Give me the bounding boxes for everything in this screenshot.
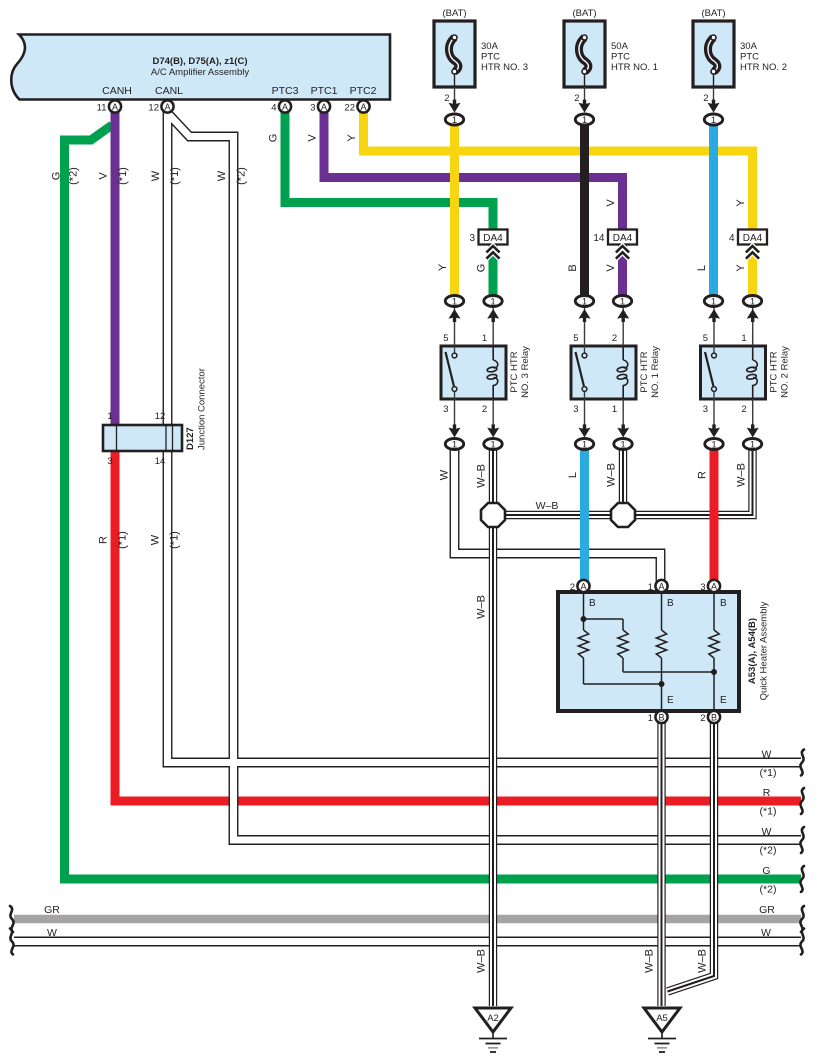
svg-text:B: B bbox=[567, 264, 579, 271]
svg-text:CANH: CANH bbox=[102, 85, 132, 97]
wire relay pin to connector bbox=[622, 308, 624, 346]
svg-text:W–B: W–B bbox=[536, 500, 559, 512]
svg-text:2: 2 bbox=[444, 93, 449, 104]
svg-text:W: W bbox=[47, 927, 57, 939]
continuation mark bbox=[10, 929, 14, 955]
svg-text:5: 5 bbox=[443, 333, 448, 344]
svg-text:22: 22 bbox=[344, 103, 355, 114]
connector oval 1 bbox=[743, 439, 761, 451]
svg-text:G: G bbox=[51, 172, 63, 181]
amp pin 4 bbox=[279, 100, 291, 112]
wire G below DA4-3 bbox=[489, 242, 498, 296]
amp pin 3 bbox=[318, 100, 330, 112]
svg-text:W–B: W–B bbox=[606, 463, 618, 487]
fuse 30A PTC HTR NO.2 bbox=[693, 8, 787, 108]
svg-text:W: W bbox=[150, 534, 162, 545]
svg-text:Y: Y bbox=[346, 134, 358, 142]
svg-text:B: B bbox=[658, 712, 664, 722]
connector oval 1 bbox=[575, 296, 593, 308]
svg-text:W–B: W–B bbox=[697, 949, 709, 973]
svg-text:NO. 1 Relay: NO. 1 Relay bbox=[650, 346, 661, 398]
wire V (*1) from CANH to D127 bbox=[111, 110, 120, 426]
svg-text:A2: A2 bbox=[487, 1013, 499, 1024]
svg-text:D74(B), D75(A), z1(C): D74(B), D75(A), z1(C) bbox=[152, 56, 247, 67]
wire V from PTC1 to DA4-14 bbox=[324, 110, 623, 232]
wire relay pin to connector bbox=[584, 308, 586, 346]
svg-text:A: A bbox=[282, 102, 288, 112]
svg-text:4: 4 bbox=[729, 233, 735, 244]
svg-text:V: V bbox=[307, 134, 319, 142]
svg-text:12: 12 bbox=[155, 411, 166, 422]
wire relay out bbox=[752, 399, 754, 430]
wire G from PTC3 to DA4-3 bbox=[285, 110, 493, 232]
svg-text:(*1): (*1) bbox=[760, 806, 777, 818]
wire relay pin to connector bbox=[752, 308, 754, 346]
junction octagon bbox=[611, 503, 635, 527]
ground A5 bbox=[644, 1008, 680, 1052]
svg-text:1: 1 bbox=[750, 440, 755, 451]
connector chevrons bbox=[616, 246, 629, 259]
wire relay pin to connector bbox=[713, 308, 715, 346]
svg-text:G: G bbox=[268, 134, 280, 143]
svg-text:1: 1 bbox=[482, 333, 487, 344]
svg-text:V: V bbox=[98, 172, 110, 180]
wire W-B heater to ground A5 bbox=[662, 720, 715, 1006]
connector oval 1 bbox=[704, 296, 722, 308]
svg-text:W: W bbox=[761, 927, 771, 939]
svg-text:Y: Y bbox=[735, 199, 747, 207]
svg-text:30A: 30A bbox=[481, 41, 499, 52]
svg-text:(*2): (*2) bbox=[68, 167, 80, 185]
svg-text:W–B: W–B bbox=[736, 463, 748, 487]
connector oval 1 bbox=[445, 439, 463, 451]
connector oval 1 bbox=[575, 439, 593, 451]
svg-text:5: 5 bbox=[573, 333, 578, 344]
A/C Amplifier Assembly box bbox=[11, 35, 390, 100]
svg-text:PTC: PTC bbox=[481, 52, 500, 63]
wire relay out bbox=[622, 399, 624, 430]
svg-text:W: W bbox=[762, 749, 772, 761]
wire Y below DA4-4 bbox=[748, 242, 757, 296]
svg-text:NO. 3 Relay: NO. 3 Relay bbox=[520, 346, 531, 398]
svg-text:HTR NO. 2: HTR NO. 2 bbox=[740, 62, 787, 73]
svg-text:D127: D127 bbox=[185, 427, 196, 450]
svg-text:3: 3 bbox=[573, 404, 578, 415]
svg-text:1: 1 bbox=[711, 115, 716, 126]
wire G (*2) from CANH to bus bbox=[65, 125, 802, 879]
svg-text:A5: A5 bbox=[656, 1013, 668, 1024]
svg-text:3: 3 bbox=[700, 582, 705, 593]
svg-text:PTC HTR: PTC HTR bbox=[769, 351, 780, 392]
wire B from fuse PTC HTR NO.1 bbox=[580, 123, 589, 296]
wire relay out bbox=[454, 399, 456, 430]
svg-text:1: 1 bbox=[452, 297, 457, 308]
Quick Heater Assembly box A53(A) A54(B) bbox=[558, 592, 739, 711]
heater internal resistors bbox=[578, 594, 727, 709]
svg-text:V: V bbox=[605, 199, 617, 207]
wire R from relay NO.2 to heater bbox=[710, 448, 719, 582]
wire Y from PTC2 to DA4-4 bbox=[364, 110, 753, 232]
continuation mark bbox=[800, 827, 804, 853]
svg-text:1: 1 bbox=[582, 440, 587, 451]
svg-text:B: B bbox=[589, 598, 596, 609]
svg-text:(*1): (*1) bbox=[169, 167, 181, 185]
svg-text:E: E bbox=[667, 695, 674, 706]
svg-text:2: 2 bbox=[612, 333, 617, 344]
svg-text:HTR NO. 3: HTR NO. 3 bbox=[481, 62, 528, 73]
svg-text:A: A bbox=[164, 102, 170, 112]
relay PTC HTR NO.2 bbox=[701, 333, 766, 415]
connector DA4 pin 14 bbox=[593, 230, 637, 245]
svg-text:1: 1 bbox=[452, 115, 457, 126]
svg-text:PTC2: PTC2 bbox=[350, 85, 377, 97]
svg-text:1: 1 bbox=[582, 115, 587, 126]
svg-text:PTC1: PTC1 bbox=[311, 85, 338, 97]
svg-text:A: A bbox=[321, 102, 327, 112]
continuation mark bbox=[800, 788, 804, 814]
svg-text:(*2): (*2) bbox=[760, 845, 777, 857]
svg-text:(BAT): (BAT) bbox=[572, 8, 596, 19]
connector oval 1 bbox=[704, 114, 722, 126]
wire GR bus bbox=[14, 915, 801, 923]
connector oval 1 bbox=[613, 296, 631, 308]
wire relay out bbox=[584, 399, 586, 430]
connector oval 1 bbox=[445, 296, 463, 308]
connector DA4 pin 3 bbox=[469, 230, 507, 245]
svg-text:W: W bbox=[150, 170, 162, 181]
junction connector D127 bbox=[103, 425, 182, 451]
svg-text:DA4: DA4 bbox=[483, 233, 503, 244]
svg-text:2: 2 bbox=[574, 93, 579, 104]
svg-text:W–B: W–B bbox=[476, 949, 488, 973]
svg-text:50A: 50A bbox=[611, 41, 629, 52]
svg-text:1: 1 bbox=[711, 297, 716, 308]
wire W-B relay outputs to ground A2 bbox=[489, 448, 753, 1006]
svg-text:NO. 2 Relay: NO. 2 Relay bbox=[780, 346, 791, 398]
svg-text:30A: 30A bbox=[740, 41, 758, 52]
amp pin 11 bbox=[109, 100, 121, 112]
svg-text:R: R bbox=[697, 471, 709, 479]
heater pin 3A bbox=[708, 580, 720, 592]
svg-text:12: 12 bbox=[148, 103, 159, 114]
svg-text:2: 2 bbox=[741, 404, 746, 415]
svg-text:3: 3 bbox=[310, 103, 315, 114]
svg-text:2: 2 bbox=[700, 713, 705, 724]
svg-text:(*1): (*1) bbox=[169, 531, 181, 549]
svg-text:1: 1 bbox=[711, 440, 716, 451]
wire relay out bbox=[713, 399, 715, 430]
svg-text:1: 1 bbox=[490, 440, 495, 451]
wire L from relay NO.1 to heater bbox=[580, 448, 589, 582]
svg-text:1: 1 bbox=[741, 333, 746, 344]
junction octagon bbox=[481, 503, 505, 527]
wire Y from fuse PTC HTR NO.3 bbox=[450, 123, 459, 296]
svg-text:(*1): (*1) bbox=[117, 531, 129, 549]
svg-text:Y: Y bbox=[735, 264, 747, 272]
svg-text:3: 3 bbox=[703, 404, 708, 415]
svg-text:1: 1 bbox=[648, 713, 653, 724]
svg-text:1: 1 bbox=[612, 404, 617, 415]
svg-text:3: 3 bbox=[443, 404, 448, 415]
svg-text:E: E bbox=[720, 695, 727, 706]
continuation mark bbox=[800, 906, 804, 932]
svg-text:R: R bbox=[98, 536, 110, 544]
svg-text:(*2): (*2) bbox=[236, 167, 248, 185]
wire relay out bbox=[492, 399, 494, 430]
wire V below DA4-14 bbox=[618, 242, 627, 296]
arrow into connector bbox=[449, 100, 461, 113]
svg-text:HTR NO. 1: HTR NO. 1 bbox=[611, 62, 658, 73]
svg-text:CANL: CANL bbox=[155, 85, 183, 97]
continuation mark bbox=[800, 750, 804, 776]
connector oval 1 bbox=[743, 296, 761, 308]
connector oval 1 bbox=[614, 439, 632, 451]
svg-text:W–B: W–B bbox=[644, 949, 656, 973]
svg-text:W: W bbox=[439, 469, 451, 480]
connector oval 1 bbox=[705, 439, 723, 451]
svg-text:5: 5 bbox=[703, 333, 708, 344]
wire W (*1) and branch W (*2) from CANL to buses bbox=[168, 110, 802, 840]
svg-text:W: W bbox=[216, 170, 228, 181]
arrow into connector bbox=[708, 100, 720, 113]
amp pin 22 bbox=[357, 100, 369, 112]
svg-text:PTC3: PTC3 bbox=[272, 85, 299, 97]
svg-text:1: 1 bbox=[620, 297, 625, 308]
fuse 50A PTC HTR NO.1 bbox=[564, 8, 658, 108]
continuation mark bbox=[800, 929, 804, 955]
fuse 30A PTC HTR NO.3 bbox=[434, 8, 528, 108]
svg-text:B: B bbox=[667, 598, 674, 609]
svg-text:(*1): (*1) bbox=[760, 767, 777, 779]
wire L from fuse PTC HTR NO.2 bbox=[709, 123, 718, 296]
continuation mark bbox=[10, 906, 14, 932]
svg-text:1: 1 bbox=[750, 297, 755, 308]
svg-text:PTC HTR: PTC HTR bbox=[509, 351, 520, 392]
heater pin 1B bbox=[655, 711, 667, 723]
svg-text:14: 14 bbox=[593, 233, 605, 244]
svg-text:1: 1 bbox=[452, 440, 457, 451]
connector DA4 pin 4 bbox=[729, 230, 767, 245]
svg-text:W–B: W–B bbox=[476, 464, 488, 488]
wire W from relay NO.3 to heater bbox=[455, 448, 661, 582]
relay PTC HTR NO.3 bbox=[441, 333, 506, 415]
svg-text:(*1): (*1) bbox=[117, 167, 129, 185]
wire relay pin to connector bbox=[492, 308, 494, 346]
svg-text:PTC HTR: PTC HTR bbox=[639, 351, 650, 392]
svg-text:L: L bbox=[696, 265, 708, 271]
continuation mark bbox=[800, 866, 804, 892]
svg-text:A: A bbox=[711, 581, 717, 591]
svg-text:A: A bbox=[112, 102, 118, 112]
svg-text:2: 2 bbox=[570, 582, 575, 593]
svg-text:A/C Amplifier Assembly: A/C Amplifier Assembly bbox=[151, 67, 249, 78]
svg-text:B: B bbox=[720, 598, 727, 609]
svg-text:14: 14 bbox=[155, 456, 166, 467]
svg-text:B: B bbox=[711, 712, 717, 722]
svg-text:G: G bbox=[762, 865, 770, 877]
wire R (*1) from D127 to bus bbox=[115, 449, 801, 801]
svg-text:1: 1 bbox=[107, 411, 112, 422]
heater pin 1A bbox=[655, 580, 667, 592]
svg-text:A53(A), A54(B): A53(A), A54(B) bbox=[747, 618, 758, 684]
svg-text:W–B: W–B bbox=[476, 595, 488, 619]
svg-text:A: A bbox=[360, 102, 366, 112]
svg-text:3: 3 bbox=[469, 233, 475, 244]
svg-text:4: 4 bbox=[271, 103, 276, 114]
svg-text:V: V bbox=[605, 264, 617, 272]
svg-text:L: L bbox=[567, 472, 579, 478]
svg-text:A: A bbox=[658, 581, 664, 591]
svg-text:(BAT): (BAT) bbox=[701, 8, 725, 19]
relay PTC HTR NO.1 bbox=[571, 333, 636, 415]
svg-text:A: A bbox=[580, 581, 586, 591]
connector oval 1 bbox=[484, 296, 502, 308]
connector oval 1 bbox=[445, 114, 463, 126]
connector oval 1 bbox=[484, 439, 502, 451]
arrow into connector bbox=[579, 100, 591, 113]
svg-text:G: G bbox=[476, 264, 488, 273]
svg-text:PTC: PTC bbox=[611, 52, 630, 63]
connector chevrons bbox=[746, 246, 759, 259]
svg-text:(BAT): (BAT) bbox=[442, 8, 466, 19]
wire relay pin to connector bbox=[454, 308, 456, 346]
svg-text:11: 11 bbox=[97, 103, 107, 114]
svg-text:2: 2 bbox=[703, 93, 708, 104]
connector oval 1 bbox=[575, 114, 593, 126]
svg-text:Quick Heater Assembly: Quick Heater Assembly bbox=[759, 601, 770, 700]
svg-text:1: 1 bbox=[490, 297, 495, 308]
svg-text:Junction Connector: Junction Connector bbox=[197, 368, 208, 450]
amp pin 12 bbox=[161, 100, 173, 112]
svg-text:1: 1 bbox=[620, 440, 625, 451]
heater pin 2B bbox=[708, 711, 720, 723]
svg-text:DA4: DA4 bbox=[743, 233, 763, 244]
svg-text:1: 1 bbox=[648, 582, 653, 593]
wire W bus bbox=[14, 937, 801, 947]
svg-text:GR: GR bbox=[759, 904, 775, 916]
svg-text:W: W bbox=[762, 826, 772, 838]
svg-text:(*2): (*2) bbox=[760, 884, 777, 896]
svg-text:2: 2 bbox=[482, 404, 487, 415]
connector chevrons bbox=[486, 246, 499, 259]
svg-text:DA4: DA4 bbox=[613, 233, 633, 244]
svg-text:PTC: PTC bbox=[740, 52, 759, 63]
heater pin 2A bbox=[577, 580, 589, 592]
svg-text:3: 3 bbox=[107, 456, 112, 467]
svg-text:GR: GR bbox=[44, 904, 60, 916]
ground A2 bbox=[475, 1008, 511, 1052]
svg-text:R: R bbox=[763, 787, 771, 799]
svg-text:1: 1 bbox=[582, 297, 587, 308]
svg-text:Y: Y bbox=[437, 263, 449, 271]
